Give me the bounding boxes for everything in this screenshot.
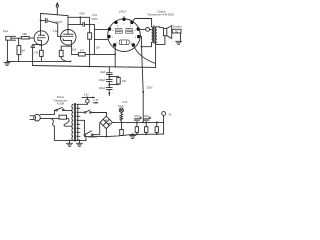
node rail A end dot [70,61,72,63]
wire R1 to V1a grid [29,37,34,39]
wire mains neutral wavy [40,119,86,141]
tube V1b triode [60,30,76,46]
socket internal elements [115,28,133,44]
svg-text:100µF: 100µF [99,87,106,90]
wire B+ top rail [41,13,68,35]
svg-text:6.3V: 6.3V [84,93,89,96]
svg-text:68K: 68K [22,32,27,36]
svg-text:1.5K: 1.5K [33,52,38,55]
capacitor C7 label and polarity [134,117,141,120]
wire speaker bottom return [156,36,165,45]
svg-text:100µF: 100µF [99,79,106,82]
node R5 rail B dot [89,66,91,68]
wire bottom rail C [84,134,163,137]
wire C3 down to socket pins [93,24,95,54]
ground symbol under T1 right [76,140,82,146]
wire rail C right end [163,122,165,134]
wire jack to R1 [16,37,22,39]
wire secondary taps [77,104,87,140]
svg-text:Transformer # M-6363: Transformer # M-6363 [147,13,174,17]
label cap values [99,71,106,90]
wire OT secondary bottom down [155,42,157,67]
node bus dot right [79,140,81,142]
wire OT primary bottom to B+ riser [142,42,152,46]
wire C1 to V1b grid [58,23,61,36]
label tube V2 above socket [119,10,128,14]
node chain dots [108,76,110,94]
node rail D dots [121,121,158,123]
svg-text:8Ω: 8Ω [175,31,178,33]
capacitor C3 coupling 0.02 [83,22,95,26]
wire B+ riser vertical [142,37,144,123]
node junction dot [79,16,81,18]
resistor R4 cathode V1b [59,46,71,61]
pilot lamp DS1 [119,108,123,113]
svg-text:0.02: 0.02 [53,30,58,33]
resistor R11 zigzag lamp dropper [120,114,123,123]
svg-text:6.3V: 6.3V [123,101,128,104]
fuse box F2 [59,115,67,119]
power transformer T1 [72,103,78,141]
resistor R1 68K series [21,37,29,40]
wire ground rail A [7,60,70,62]
svg-text:Speaker: Speaker [173,26,182,29]
capacitor C1 coupling 0.02 [41,19,58,24]
wire rail B heater/common [33,66,156,68]
resistor R9 [155,122,158,134]
ground symbol rail C [130,134,136,138]
wire bottom bus corner up [85,137,87,141]
svg-text:10K: 10K [122,80,127,83]
B+ output terminal [162,112,166,123]
speaker LS1 [164,26,172,39]
svg-text:20µF: 20µF [144,115,150,118]
svg-text:12AU7: 12AU7 [119,10,128,14]
wire socket pin4 to B+ riser [139,36,142,38]
resistor R3 cathode V1a [40,45,44,61]
resistor R7 dropping [109,77,120,85]
wire B+ branch right [68,16,90,18]
wire upper left pin stub [94,28,108,30]
wire heater arrow 2 [93,102,98,104]
wire socket pin3 to connector [138,28,146,30]
socket pin dots [107,18,140,47]
label output transformer [147,9,174,16]
resistor R8 bleed [120,122,124,135]
bridge rectifier D1 [100,116,112,128]
tube socket V2 circle [108,19,141,52]
svg-text:40µF: 40µF [134,115,140,118]
wire cathode bias line [72,53,79,55]
svg-text:600V: 600V [92,18,98,21]
capacitor C8 label and polarity [144,117,151,120]
switch S3 HV lower [84,120,100,135]
ground symbol at jack [4,62,10,65]
wire B+ rail D [112,121,163,123]
node heater dot [87,97,89,99]
wire plate branch right [68,23,82,25]
svg-text:10µF: 10µF [100,71,106,74]
wire bridge bottom [105,129,107,137]
wire bias line right [85,53,115,55]
svg-text:12AU7: 12AU7 [54,20,63,24]
input jack J1 [6,36,16,40]
svg-text:0.02: 0.02 [92,14,97,17]
output transformer T2 [152,26,157,43]
switch S1 mains [56,107,72,110]
svg-text:325V: 325V [146,86,152,90]
svg-text:Input: Input [3,30,9,33]
wire mains hot to switch [40,110,56,114]
wire socket pin2 to OT primary top [132,19,152,27]
svg-text:820: 820 [72,49,77,52]
node riser corner dot [141,46,143,48]
label power transformer [53,95,67,105]
node mains bottom dot [69,140,71,142]
svg-text:6.3V: 6.3V [94,99,99,102]
wire socket cathode arc [133,45,155,64]
node jack ground dot [7,61,9,63]
node plate V1a junction dot [40,20,42,22]
wire OT secondary to speaker [157,26,164,29]
fuse F1 on 6.3V riser [86,97,90,104]
svg-text:470: 470 [80,49,85,52]
wire R6 to ground [180,33,182,41]
svg-text:Lamp: Lamp [118,105,125,108]
wire socket pin6 down [114,45,117,67]
resistor R5 grid 470K [88,17,92,66]
label 0.02 C3 [92,14,98,21]
resistor R2 1M grid leak [17,38,21,61]
wire lower left pin stub [94,38,107,40]
resistor R6 load box [172,29,181,33]
svg-text:470K: 470K [79,13,85,16]
ground symbol right [176,41,182,44]
capacitor C7 body [135,122,138,134]
ground symbol under T1 left [67,140,73,146]
capacitor C2 cathode bypass [31,45,41,66]
svg-text:1M: 1M [21,49,25,53]
wire heater arrow 1 [82,96,95,98]
tube V1a triode [34,31,48,45]
filter chain C4 C5 C6 [106,67,112,95]
wire socket top pin stub [123,17,125,20]
wire connector to OT [150,28,152,30]
AC plug P1 [30,114,40,121]
node B+ riser dot [142,91,144,93]
node rail C dots [106,133,158,137]
B+ terminal top center [56,2,59,15]
switch S2 HV [84,110,106,116]
wire V1b cathode down [71,40,73,54]
wire junction link down [79,17,81,24]
socket pin numbers [112,23,137,44]
wire jack sleeve to ground [6,40,8,61]
label lamp [118,101,128,108]
svg-text:K-50R: K-50R [57,102,64,106]
resistor R10 cathode bias [78,53,85,56]
node bias line end dot [114,54,116,56]
terminal circle plate connector [146,28,150,32]
capacitor C8 body [145,122,148,134]
